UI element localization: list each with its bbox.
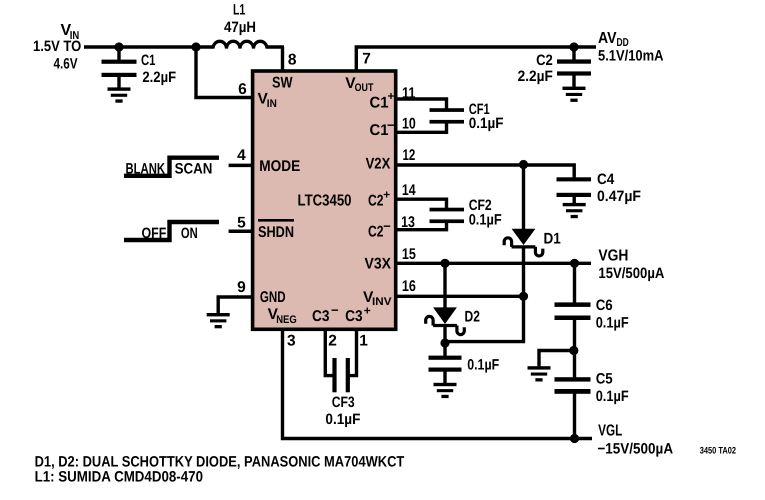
wire 0.1uF cap to ground [443, 371, 446, 383]
svg-text:16: 16 [402, 278, 416, 295]
label C1 value [141, 52, 176, 86]
svg-text:+: + [383, 188, 390, 202]
capacitor C1 plates [102, 60, 137, 77]
svg-text:7: 7 [362, 51, 371, 68]
ground at C2 [563, 87, 586, 102]
label L1 value [224, 1, 256, 35]
svg-text:VGH: VGH [598, 248, 628, 265]
svg-text:V3X: V3X [365, 256, 392, 273]
junction V3X/D2 [440, 259, 449, 268]
svg-text:4: 4 [237, 147, 246, 164]
wire C2 stub from AVDD [572, 47, 575, 60]
wire pin 2 C3- to CF3 [325, 331, 333, 376]
svg-text:+: + [364, 304, 371, 318]
ground at pin 9 [207, 313, 230, 328]
svg-text:0.47µF: 0.47µF [597, 188, 641, 205]
svg-text:15V/500µA: 15V/500µA [598, 265, 664, 282]
junction VIN/C1 [114, 42, 123, 51]
IC pin name C2- [368, 219, 391, 241]
svg-text:V2X: V2X [366, 155, 391, 172]
svg-text:OFF: OFF [142, 225, 167, 242]
svg-text:1: 1 [359, 333, 368, 350]
IC pin name VNEG [268, 306, 297, 326]
svg-text:INV: INV [372, 296, 392, 308]
svg-text:−15V/500µA: −15V/500µA [597, 440, 673, 457]
wire D2 anode from V3X [443, 263, 446, 308]
IC pin name VOUT [345, 75, 373, 94]
wire mid node to ground [539, 351, 576, 367]
pin 4 MODE stub [229, 164, 254, 168]
svg-text:C4: C4 [597, 171, 615, 188]
svg-text:−: − [387, 118, 395, 133]
IC pin name C3- [312, 303, 339, 326]
svg-text:5: 5 [237, 215, 246, 232]
IC pin name SHDN with overline [258, 220, 294, 241]
svg-text:SHDN: SHDN [258, 224, 294, 241]
svg-text:ON: ON [181, 225, 198, 242]
wire CF2 to pin 13 C2- [396, 221, 447, 230]
IC pin name C3+ [345, 304, 371, 326]
svg-text:C2: C2 [368, 193, 384, 210]
IC pin name C1- [370, 118, 395, 140]
capacitor C5 plates [555, 377, 591, 394]
svg-text:9: 9 [237, 279, 246, 296]
wire D2 cathode to node [443, 326, 446, 344]
wire C6 to mid node [573, 320, 576, 351]
diode D1 schottky [504, 229, 543, 256]
svg-text:C2: C2 [368, 223, 384, 240]
wire C1 to ground [117, 77, 120, 88]
node VIN source label [33, 22, 81, 72]
wire D1 cathode down to VINV node and across to D2 cathode [445, 247, 524, 342]
wire branch to pin 6 VIN [196, 45, 254, 97]
svg-text:C6: C6 [596, 297, 613, 314]
node AVDD label [598, 30, 664, 65]
svg-text:C1: C1 [141, 52, 156, 69]
svg-text:CF3: CF3 [332, 394, 355, 411]
capacitor C2 plates [557, 59, 591, 75]
svg-text:1.5V TO: 1.5V TO [33, 38, 81, 55]
svg-text:VGL: VGL [598, 423, 622, 440]
junction V2X/D1 [519, 160, 528, 169]
inductor L1 [213, 41, 267, 48]
svg-text:D1: D1 [544, 230, 562, 247]
wire CF1 to pin 10 C1- [396, 121, 447, 132]
svg-text:10: 10 [402, 116, 416, 133]
label CF1 value [469, 101, 504, 132]
wire pin 8 SW drop [281, 47, 284, 71]
svg-text:LTC3450: LTC3450 [298, 193, 352, 210]
svg-text:12: 12 [403, 147, 416, 164]
wire pin 16 VINV [396, 295, 524, 298]
wire pin 11 C1+ to CF1 [396, 99, 447, 111]
wire C4 to ground [573, 197, 576, 204]
IC pin name VIN [258, 90, 277, 110]
wire C6 stub from VGH rail [573, 263, 576, 303]
logic step BLANK/SCAN [124, 158, 219, 176]
junction V3X/C6 [570, 259, 579, 268]
junction VGL/C5 [570, 434, 579, 443]
svg-text:0.1µF: 0.1µF [325, 411, 360, 428]
pin 5 SHDN stub [229, 230, 254, 234]
svg-text:2.2µF: 2.2µF [518, 68, 553, 85]
node VGL label [597, 423, 673, 458]
junction VIN/L1 branch [191, 42, 200, 51]
IC pin name C2+ [368, 188, 390, 210]
svg-text:L1: SUMIDA CMD4D08-470: L1: SUMIDA CMD4D08-470 [35, 468, 203, 485]
wire pin 12 V2X [396, 165, 574, 178]
svg-text:2: 2 [328, 333, 337, 350]
wire C5 to VGL rail [573, 393, 576, 438]
svg-text:13: 13 [401, 214, 415, 231]
svg-text:11: 11 [402, 85, 416, 102]
wire pin 15 V3X rail to VGH [396, 262, 591, 265]
logic step OFF/ON [124, 222, 219, 240]
label CF3 value [325, 394, 360, 428]
wire D1 anode from V2X [522, 165, 525, 230]
svg-text:3450 TA02: 3450 TA02 [700, 446, 736, 457]
svg-text:5.1V/10mA: 5.1V/10mA [598, 48, 664, 65]
svg-text:IN: IN [267, 98, 277, 110]
svg-text:D2: D2 [465, 308, 480, 325]
node OFF/ON labels [142, 225, 198, 242]
node VGH label [598, 248, 664, 282]
capacitor CF3 plates [332, 358, 350, 392]
svg-text:14: 14 [402, 182, 416, 199]
diode D2 schottky [426, 307, 465, 334]
IC U1 LTC3450 body [253, 71, 396, 329]
svg-text:0.1µF: 0.1µF [469, 115, 504, 132]
svg-text:0.1µF: 0.1µF [596, 388, 629, 405]
node BLANK/SCAN labels [126, 160, 213, 177]
svg-text:SCAN: SCAN [175, 160, 213, 177]
svg-text:AV: AV [598, 30, 617, 47]
svg-text:6: 6 [238, 81, 247, 98]
svg-text:NEG: NEG [276, 314, 297, 326]
svg-text:3: 3 [287, 333, 296, 350]
ground at C4 [563, 203, 586, 218]
wire pin 3 VNEG to VGL rail [283, 331, 593, 439]
svg-text:C3: C3 [345, 308, 363, 325]
junction D2 cathode node [440, 338, 449, 347]
wire pin 7 VOUT to AVDD [356, 47, 596, 71]
svg-text:0.1µF: 0.1µF [467, 356, 499, 373]
ground at C1 [108, 87, 131, 102]
svg-text:L1: L1 [233, 1, 245, 18]
label C4 value [597, 171, 641, 205]
wire pin 14 C2+ to CF2 [396, 199, 447, 210]
ground at D2 cap [434, 383, 457, 398]
svg-text:−: − [331, 303, 339, 318]
capacitor C6 plates [555, 302, 591, 320]
svg-text:8: 8 [288, 52, 297, 69]
svg-text:0.1µF: 0.1µF [596, 315, 629, 332]
wire VIN rail top-left [84, 45, 213, 48]
svg-text:OUT: OUT [355, 82, 374, 94]
junction AVDD/C2 [569, 42, 578, 51]
IC pin name VINV [363, 289, 392, 308]
capacitor CF1 plates [430, 108, 465, 123]
junction C6/C5/ground [569, 346, 578, 355]
wire C5 stub from mid node [573, 351, 576, 378]
label CF2 value [469, 197, 502, 228]
svg-text:0.1µF: 0.1µF [469, 212, 502, 229]
wire C1 stub from VIN rail [117, 47, 120, 60]
svg-text:C1: C1 [370, 94, 389, 111]
svg-text:C3: C3 [312, 308, 330, 325]
svg-text:BLANK: BLANK [126, 160, 166, 177]
label C5 value [596, 370, 629, 405]
ground at C6/C5 mid node [528, 366, 551, 381]
svg-text:−: − [383, 219, 391, 234]
capacitor C4 plates [557, 177, 592, 197]
svg-text:+: + [387, 89, 394, 103]
svg-text:4.6V: 4.6V [54, 56, 78, 73]
wire pin 9 GND to ground [218, 297, 254, 313]
junction VINV/D1 [519, 292, 528, 301]
wire C2 to ground [572, 75, 575, 87]
wire pin 1 C3+ to CF3 [349, 331, 357, 376]
capacitor CF2 plates [430, 208, 465, 223]
svg-text:C2: C2 [536, 52, 553, 69]
wire D2 node to 0.1uF cap [443, 343, 446, 356]
wire L1 to pin8 [267, 45, 284, 48]
svg-text:MODE: MODE [259, 158, 300, 175]
capacitor 0.1uF at D2 plates [429, 356, 462, 372]
svg-text:47µH: 47µH [224, 19, 256, 36]
svg-text:GND: GND [260, 289, 286, 306]
svg-text:C5: C5 [596, 370, 613, 387]
label C2 value [518, 52, 553, 85]
svg-text:SW: SW [272, 75, 293, 92]
svg-text:2.2µF: 2.2µF [142, 69, 176, 86]
label C6 value [596, 297, 629, 332]
svg-text:15: 15 [402, 246, 416, 263]
IC pin name C1+ [370, 89, 395, 111]
